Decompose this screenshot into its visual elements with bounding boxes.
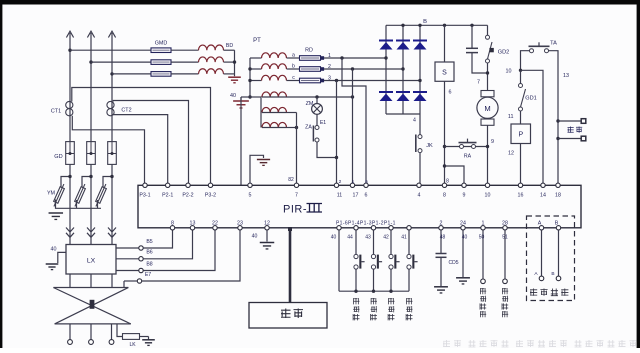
ground LK — [142, 339, 155, 341]
capacitor C — [466, 47, 478, 49]
capacitor CD5 — [436, 253, 447, 255]
svg-text:S: S — [442, 69, 447, 76]
wire LX to winding X — [90, 274, 92, 288]
wire feeder 2 — [91, 61, 151, 63]
terminal top 5 — [248, 183, 252, 187]
wire lamp to ZA — [316, 114, 318, 125]
svg-text:44: 44 — [347, 235, 353, 241]
svg-text:GD: GD — [54, 154, 62, 160]
cable arrowheads phase-2 — [87, 228, 95, 238]
wire winding X output — [69, 324, 71, 340]
svg-text:JK: JK — [426, 143, 433, 149]
svg-text:16: 16 — [518, 193, 524, 199]
diode D2 top — [396, 40, 410, 42]
varistor YM2 lead — [82, 177, 91, 188]
wire LX row E7 drop — [123, 281, 125, 288]
wire 2 feed to bridge — [324, 68, 403, 70]
winding PT secondary s3 — [262, 122, 286, 127]
svg-text:B: B — [551, 271, 554, 277]
node: feeder tap C — [110, 72, 113, 75]
label feed column 2 vertical — [502, 288, 508, 317]
wire LX ground lead — [58, 252, 66, 263]
node: feeder tap B — [89, 60, 92, 63]
svg-text:LK: LK — [129, 342, 136, 348]
diode D3 top — [413, 40, 427, 42]
wire btn3 upper — [390, 230, 392, 254]
wire bridge minus down — [419, 114, 421, 135]
wire btn4 lower — [408, 269, 410, 291]
svg-text:8: 8 — [443, 193, 446, 199]
node RA right — [486, 145, 489, 148]
winding X diagonal 2 — [55, 288, 129, 324]
CT2 current transformer — [107, 101, 114, 108]
wire s1 to lamp ZM — [316, 97, 318, 104]
svg-text:ZM: ZM — [306, 101, 314, 107]
button RA — [460, 145, 464, 149]
node YM tap 2 — [89, 175, 92, 178]
watermark text — [443, 340, 637, 347]
svg-text:B5: B5 — [146, 239, 152, 245]
wire terminal5 to ground — [250, 155, 264, 183]
diode D4 bottom — [379, 91, 393, 93]
svg-text:RD: RD — [305, 47, 313, 53]
svg-text:82: 82 — [288, 177, 294, 183]
terminal bottom 24 — [461, 226, 465, 230]
fuse RD phase-c — [300, 78, 321, 83]
bridge leg 2 wire — [402, 25, 404, 114]
svg-text:40: 40 — [462, 235, 468, 241]
terminal top 7 — [294, 183, 298, 187]
connector output — [109, 340, 114, 345]
svg-text:8: 8 — [171, 220, 174, 226]
svg-text:LX: LX — [87, 257, 96, 264]
node bridge leg2 top — [401, 24, 404, 27]
motor M — [477, 97, 498, 118]
wire ZA to wire-2 drop — [317, 142, 337, 158]
ground YM — [49, 212, 63, 214]
svg-text:9: 9 — [491, 139, 494, 145]
svg-text:12: 12 — [264, 220, 270, 226]
label IS comms — [530, 289, 537, 296]
fuse GMD phase-1 — [151, 48, 171, 53]
connector B6 — [139, 257, 143, 261]
svg-text:6: 6 — [449, 90, 452, 96]
svg-text:28: 28 — [502, 220, 508, 226]
winding PT primary a — [262, 53, 287, 58]
connector 51 — [503, 279, 508, 284]
wire BD common vertical — [234, 50, 236, 76]
arrester GD phase-2 — [87, 142, 96, 165]
wire 40 net down to PIR edge — [240, 97, 242, 185]
frame: right black bar — [637, 0, 640, 348]
switch GD1 — [519, 84, 523, 88]
wire motor to terminal 10 — [487, 125, 489, 185]
svg-text:A: A — [538, 220, 542, 226]
bridge leg 1 wire — [385, 25, 387, 114]
svg-text:ZA: ZA — [305, 125, 312, 131]
wire winding X output — [90, 324, 92, 340]
wire CD5 down — [440, 258, 442, 286]
terminal bottom P1 — [337, 226, 341, 230]
wire TA left — [521, 51, 530, 71]
svg-text:18: 18 — [555, 193, 561, 199]
terminal bottom P1 — [389, 226, 393, 230]
varistor YM3 — [94, 183, 108, 207]
box P — [511, 124, 531, 144]
terminal top 9 — [462, 183, 466, 187]
node tap wire2 — [351, 67, 354, 70]
svg-text:M: M — [484, 104, 490, 113]
box S — [435, 62, 454, 81]
svg-text:4: 4 — [418, 193, 421, 199]
node s1 end at wire 1 drop — [351, 95, 354, 98]
wire terminal 12 down — [266, 230, 268, 242]
wire btn2 upper — [373, 230, 375, 254]
wire TA right to terminal 18 — [549, 51, 559, 186]
node cap tap — [470, 24, 473, 27]
wire btn3 lower — [390, 269, 392, 291]
wire bus corner to GD2 — [487, 25, 489, 35]
terminal bottom 23 — [238, 226, 242, 230]
svg-text:P1-6P1-4P1-3P1-2P1-1: P1-6P1-4P1-3P1-2P1-1 — [336, 220, 396, 226]
phase bus B vertical wire — [90, 33, 92, 245]
wire fuse1-coil1 — [171, 49, 199, 51]
wire LX row E7 to terminal — [142, 228, 240, 281]
terminal bottom 22 — [213, 226, 217, 230]
svg-text:11: 11 — [337, 193, 343, 199]
wire drop to terminal 17 — [352, 69, 354, 185]
svg-text:43: 43 — [365, 235, 371, 241]
svg-text:CT1: CT1 — [51, 109, 61, 115]
svg-text:2: 2 — [440, 220, 443, 226]
svg-text:11: 11 — [508, 114, 514, 120]
node ZA join — [335, 156, 338, 159]
terminal square b — [321, 67, 325, 71]
wire JK to terminal 4 — [419, 153, 421, 186]
wire 40 to PT ground — [241, 96, 250, 98]
label btn1 name vertical — [353, 298, 359, 320]
wire PT left vertical — [249, 58, 251, 97]
wire s3 right lead — [287, 127, 297, 129]
node tap wire1 — [340, 56, 343, 59]
svg-text:B: B — [555, 220, 559, 226]
label LCD — [281, 309, 291, 319]
connector A — [539, 276, 544, 281]
svg-text:c: c — [292, 75, 295, 81]
wire LX row B8 left — [116, 270, 139, 272]
node tap wire3 — [335, 79, 338, 82]
svg-text:24: 24 — [460, 220, 466, 226]
wire PT primary a left lead — [250, 57, 262, 59]
wire fuse3-coil3 — [171, 73, 199, 75]
wire terminal B down — [558, 230, 560, 276]
svg-text:50: 50 — [479, 235, 485, 241]
label btn4 name vertical — [406, 298, 412, 320]
wire CT1-top to terminal P3-2 — [72, 88, 211, 186]
wire drop to terminal 11 — [336, 81, 338, 186]
button btn1 — [354, 254, 358, 258]
svg-text:P3-2: P3-2 — [205, 193, 216, 199]
wire s2 right lead — [287, 112, 297, 114]
svg-text:RA: RA — [464, 154, 472, 160]
node RA left — [443, 145, 446, 148]
lamp ZM — [312, 104, 323, 115]
wire trip1 — [558, 120, 581, 122]
svg-text:40: 40 — [252, 234, 258, 240]
wire fuse2-coil2 — [171, 61, 199, 63]
wire btn1 lower — [355, 269, 357, 291]
node s3 join — [295, 126, 298, 129]
motor M brush bottom — [481, 119, 494, 125]
node S tap — [443, 24, 446, 27]
wire GD1 to P — [520, 111, 522, 124]
svg-text:5: 5 — [249, 193, 252, 199]
terminal top 16 — [518, 183, 522, 187]
svg-text:GD2: GD2 — [498, 50, 510, 56]
node trip2 — [556, 137, 559, 140]
svg-text:22: 22 — [212, 220, 218, 226]
wire bus to capacitor — [471, 25, 473, 48]
wire LX to winding X — [69, 274, 71, 288]
svg-text:P3-1: P3-1 — [139, 193, 150, 199]
node bridge phase3 — [418, 79, 421, 82]
node bridge phase1 — [384, 56, 387, 59]
svg-text:TA: TA — [550, 41, 557, 47]
terminal top P2-2 — [186, 183, 190, 187]
inductor BD phase-3 — [199, 69, 224, 74]
winding PT primary b — [262, 64, 287, 69]
label remote-trip — [568, 127, 574, 133]
fuse GMD phase-2 — [151, 60, 171, 65]
box LCD — [249, 303, 327, 329]
connector 50 — [481, 279, 486, 284]
svg-text:8: 8 — [446, 179, 449, 185]
wire terminal A down — [541, 230, 543, 276]
wire LX row B6 to terminal — [143, 228, 192, 259]
node: feeder tap A — [68, 49, 71, 52]
frame: top black bar — [0, 0, 640, 5]
wire LX row E7 left — [124, 280, 137, 282]
terminal top 6 — [364, 183, 368, 187]
phase bus A vertical wire — [69, 33, 71, 245]
svg-text:7: 7 — [295, 193, 298, 199]
connector output — [89, 340, 94, 345]
wire PT primary a right lead — [287, 57, 300, 59]
terminal bottom 8 — [170, 226, 174, 230]
wire PT primary c left lead — [250, 80, 262, 82]
terminal top 10 — [485, 183, 489, 187]
svg-text:CD5: CD5 — [448, 260, 458, 266]
ground BD — [228, 76, 241, 78]
fuse GMD phase-3 — [151, 72, 171, 77]
wire LX row B8 to terminal — [143, 228, 215, 271]
terminal top 18 — [556, 183, 560, 187]
svg-text:51: 51 — [502, 235, 508, 241]
terminal top 8 — [442, 183, 446, 187]
wire P1-6 down — [338, 230, 340, 291]
node s1-ZM — [315, 95, 318, 98]
ground LX — [46, 263, 59, 265]
terminal bottom B — [556, 226, 560, 230]
node PT primary c — [248, 79, 251, 82]
terminal top 4 — [417, 183, 421, 187]
button btn4 — [407, 254, 411, 258]
switch ZA — [315, 126, 319, 130]
node PT secondary common — [248, 95, 251, 98]
terminal bottom 2 — [439, 226, 443, 230]
ground CD5 — [434, 286, 448, 288]
varistor YM2 — [73, 183, 87, 207]
wire btn4 upper — [408, 230, 410, 254]
svg-text:E1: E1 — [320, 120, 326, 126]
varistor YM1 — [52, 183, 66, 207]
terminal bottom P1 — [354, 226, 358, 230]
svg-text:1: 1 — [352, 179, 355, 185]
wire thick to LCD — [289, 230, 292, 303]
wire capacitor down — [472, 53, 488, 73]
node trip1 — [556, 119, 559, 122]
diode D1 top — [379, 40, 393, 42]
node bridge leg3 top — [418, 24, 421, 27]
terminal bottom 13 — [190, 226, 194, 230]
svg-text:5: 5 — [365, 179, 368, 185]
frame: left black bar — [0, 0, 2, 348]
connector B8 — [139, 268, 143, 272]
bridge bottom bus — [386, 113, 420, 115]
wire YM common — [56, 200, 102, 209]
svg-text:B: B — [423, 19, 427, 25]
terminal square c — [321, 79, 325, 83]
svg-text:1: 1 — [482, 220, 485, 226]
motor M brush top — [481, 91, 494, 97]
wire terminal 24 down — [462, 230, 464, 277]
terminal bottom P1 — [371, 226, 375, 230]
terminal top 11 — [334, 183, 338, 187]
wire LX to winding X — [111, 274, 113, 288]
svg-text:GD1: GD1 — [525, 96, 537, 102]
wire LK to ground — [140, 336, 149, 338]
DC bus B — [386, 24, 488, 26]
svg-text:P: P — [518, 132, 523, 139]
svg-text:41: 41 — [401, 235, 407, 241]
wire bus to S — [444, 25, 446, 62]
terminal bottom 12 — [265, 226, 269, 230]
terminal bottom A — [539, 226, 543, 230]
svg-text:B6: B6 — [146, 250, 152, 256]
connector B — [556, 276, 561, 281]
svg-text:10: 10 — [506, 69, 512, 75]
svg-text:13: 13 — [190, 220, 196, 226]
terminal top 14 — [541, 183, 545, 187]
node terminal9 branch — [443, 164, 446, 167]
node motor-cap join — [486, 71, 489, 74]
ground PT 40 — [233, 100, 249, 102]
wire feeder 1 — [70, 49, 151, 51]
wire coil3 to BD common — [224, 73, 235, 75]
wire terminal 2 down — [440, 230, 442, 253]
svg-text:BD: BD — [226, 43, 233, 49]
fuse RD phase-a — [300, 56, 321, 61]
wire drop to terminal 6 — [342, 58, 366, 185]
dashed box IS comms — [527, 216, 575, 301]
winding PT secondary s1 — [250, 96, 262, 98]
wire PT primary b right lead — [287, 68, 300, 70]
connector output — [68, 340, 73, 345]
CT1 current transformer — [66, 101, 73, 108]
svg-text:CT2: CT2 — [121, 108, 131, 114]
ground terminal 5 — [257, 159, 270, 161]
terminal top 17 — [350, 183, 354, 187]
cable arrowheads phase-3 — [108, 228, 116, 238]
bridge leg 3 wire — [419, 25, 421, 114]
terminal top P2-1 — [166, 183, 170, 187]
label btn2 name vertical — [371, 298, 377, 320]
wire node10 to GD1 — [520, 70, 522, 83]
wire node10 to terminal 14 — [521, 70, 544, 185]
svg-text:P2-1: P2-1 — [162, 193, 173, 199]
wire button rail — [339, 290, 409, 292]
svg-text:13: 13 — [563, 73, 569, 79]
node rail — [389, 290, 392, 293]
winding X diagonal 1 — [53, 288, 130, 324]
svg-text:4: 4 — [413, 118, 416, 124]
button btn2 — [371, 254, 375, 258]
block PIR-III — [138, 185, 581, 228]
fuse RD phase-b — [300, 67, 321, 72]
wire btn2 lower — [373, 269, 375, 291]
arrester GD phase-3 — [108, 142, 117, 165]
wire LX row B5 left — [116, 247, 139, 249]
button TA — [530, 49, 534, 53]
winding X top line — [53, 287, 128, 289]
wire secondary to terminal 7 — [296, 113, 298, 186]
connector B5 — [139, 246, 143, 250]
wire terminal 28 down — [504, 230, 506, 279]
switch JK — [418, 135, 422, 139]
svg-text:E7: E7 — [145, 272, 151, 278]
wire winding X output — [111, 324, 113, 340]
wire terminal 1 down — [482, 230, 484, 279]
wire 1 feed to bridge — [324, 57, 386, 59]
svg-text:B8: B8 — [146, 261, 152, 267]
node BD common — [233, 60, 236, 63]
svg-text:12: 12 — [508, 151, 514, 157]
wire winding X to LK — [117, 324, 123, 337]
phase line L3 up-arrow — [108, 31, 115, 37]
inductor BD phase-2 — [199, 57, 224, 62]
wire PT primary c right lead — [287, 80, 300, 82]
terminal bottom 28 — [503, 226, 507, 230]
node bridge phase2 — [401, 67, 404, 70]
wire P to terminal 16 — [520, 144, 522, 186]
svg-text:a: a — [292, 53, 295, 59]
svg-text:23: 23 — [237, 220, 243, 226]
varistor YM3 lead — [103, 177, 112, 188]
svg-text:48: 48 — [440, 235, 446, 241]
svg-text:10: 10 — [485, 193, 491, 199]
wire RA row — [445, 146, 488, 148]
svg-text:42: 42 — [383, 235, 389, 241]
svg-text:2: 2 — [339, 179, 342, 185]
svg-text:YM: YM — [47, 190, 56, 196]
winding X center junction — [90, 300, 95, 309]
terminal bottom 1 — [481, 226, 485, 230]
node rail — [354, 290, 357, 293]
wire coil1 to BD common — [224, 49, 235, 51]
label feed column 1 vertical — [480, 288, 486, 317]
svg-text:GMD: GMD — [155, 40, 168, 46]
phase line L1 up-arrow — [66, 31, 73, 37]
